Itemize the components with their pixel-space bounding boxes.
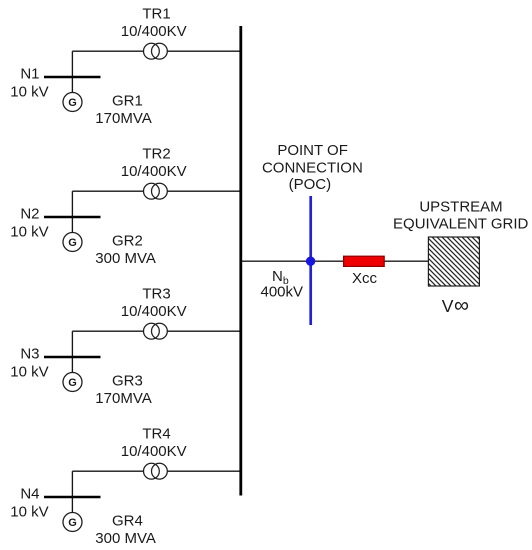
svg-text:N3: N3 xyxy=(20,346,39,363)
svg-text:Xcc: Xcc xyxy=(352,270,378,287)
wire riser N1: corner down through busbar to generator xyxy=(71,51,73,92)
generator GR4 symbol xyxy=(63,513,82,532)
wire TR1 secondary: transformer to main bus xyxy=(167,50,241,52)
svg-text:N1: N1 xyxy=(20,66,39,83)
reactance Xcc (red rectangle) xyxy=(344,256,385,266)
main 400kV bus Nb (vertical) xyxy=(239,26,242,496)
transformer TR4 (two overlapping circles) xyxy=(144,463,168,479)
svg-text:170MVA: 170MVA xyxy=(95,110,151,127)
transformer TR2 (two overlapping circles) xyxy=(144,183,168,199)
svg-text:GR4: GR4 xyxy=(112,513,143,530)
POC node (blue dot) xyxy=(306,257,315,266)
generator GR1 symbol xyxy=(63,93,82,112)
svg-text:G: G xyxy=(68,97,77,109)
svg-text:10/400KV: 10/400KV xyxy=(121,443,187,460)
svg-text:EQUIVALENT GRID: EQUIVALENT GRID xyxy=(393,215,528,232)
svg-text:TR4: TR4 xyxy=(142,426,170,443)
busbar node N3 xyxy=(44,356,101,359)
svg-text:TR2: TR2 xyxy=(142,146,170,163)
svg-text:TR1: TR1 xyxy=(142,6,170,23)
wire TR3 secondary: transformer to main bus xyxy=(167,330,241,332)
wire TR4 secondary: transformer to main bus xyxy=(167,470,241,472)
wire riser N3: corner down through busbar to generator xyxy=(71,331,73,373)
svg-text:TR3: TR3 xyxy=(142,286,170,303)
svg-text:G: G xyxy=(68,517,77,529)
svg-text:(POC): (POC) xyxy=(289,176,332,193)
svg-text:POINT OF: POINT OF xyxy=(277,142,348,159)
svg-text:CONNECTION: CONNECTION xyxy=(262,159,363,176)
wire riser N4: corner down through busbar to generator xyxy=(71,471,73,513)
POC blue line xyxy=(309,196,312,325)
svg-text:10 kV: 10 kV xyxy=(10,504,48,521)
svg-text:GR1: GR1 xyxy=(112,93,143,110)
wire TR1 primary: generator riser corner to transformer xyxy=(72,50,143,52)
svg-text:10 kV: 10 kV xyxy=(10,84,48,101)
svg-text:G: G xyxy=(68,237,77,249)
svg-text:GR2: GR2 xyxy=(112,233,143,250)
svg-text:GR3: GR3 xyxy=(112,373,143,390)
wire main bus to upstream grid xyxy=(242,260,428,262)
generator GR3 symbol xyxy=(63,373,82,392)
svg-text:V∞: V∞ xyxy=(442,294,469,317)
svg-text:N2: N2 xyxy=(20,206,39,223)
transformer TR3 (two overlapping circles) xyxy=(144,323,168,339)
busbar node N2 xyxy=(44,216,101,219)
transformer TR1 (two overlapping circles) xyxy=(144,43,168,59)
busbar node N4 xyxy=(44,496,101,499)
svg-text:G: G xyxy=(68,377,77,389)
svg-text:10/400KV: 10/400KV xyxy=(121,163,187,180)
svg-text:N4: N4 xyxy=(20,486,39,503)
busbar node N1 xyxy=(44,76,101,79)
svg-text:10 kV: 10 kV xyxy=(10,224,48,241)
svg-text:10/400KV: 10/400KV xyxy=(121,23,187,40)
svg-text:UPSTREAM: UPSTREAM xyxy=(419,199,502,216)
svg-text:300 MVA: 300 MVA xyxy=(95,530,156,547)
svg-text:10 kV: 10 kV xyxy=(10,364,48,381)
svg-text:170MVA: 170MVA xyxy=(95,390,151,407)
svg-text:300 MVA: 300 MVA xyxy=(95,250,156,267)
generator GR2 symbol xyxy=(63,233,82,252)
wire TR3 primary: generator riser corner to transformer xyxy=(72,330,143,332)
svg-text:400kV: 400kV xyxy=(261,283,304,300)
upstream equivalent grid box (hatched) xyxy=(428,237,479,286)
wire TR4 primary: generator riser corner to transformer xyxy=(72,470,143,472)
wire TR2 primary: generator riser corner to transformer xyxy=(72,190,143,192)
wire TR2 secondary: transformer to main bus xyxy=(167,190,241,192)
svg-text:10/400KV: 10/400KV xyxy=(121,303,187,320)
wire riser N2: corner down through busbar to generator xyxy=(71,191,73,233)
